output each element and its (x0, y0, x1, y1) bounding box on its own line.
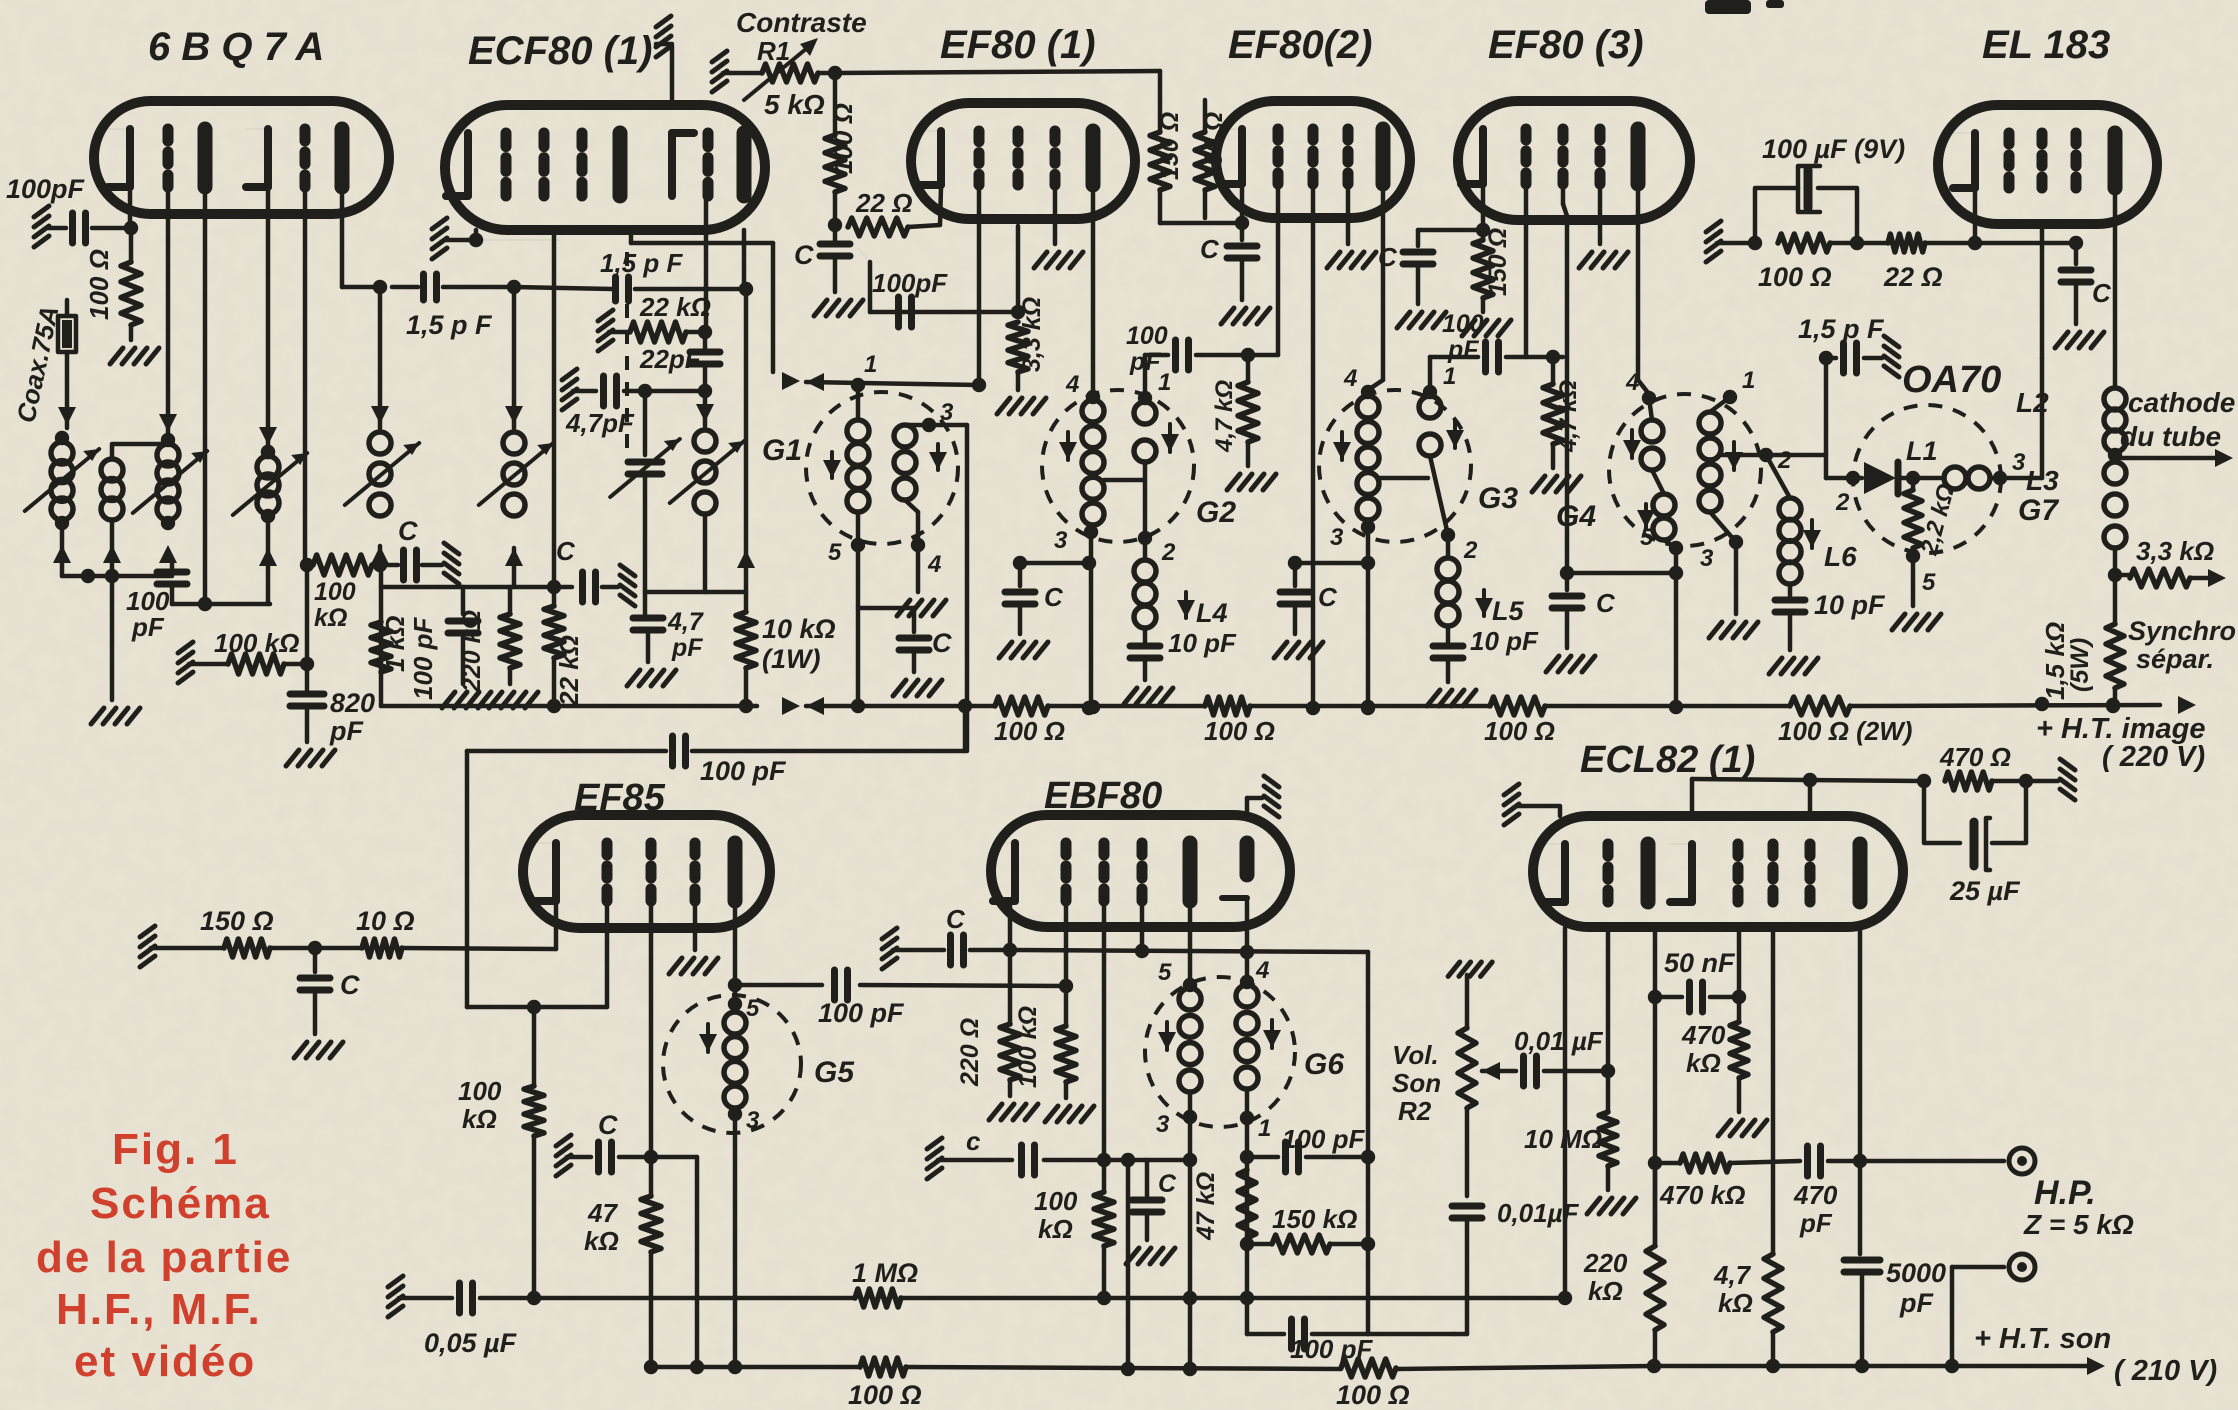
capacitor 100pF det1 (1247, 1142, 1375, 1172)
capacitor C g1 (858, 608, 942, 696)
transformer G6 can (1145, 977, 1295, 1127)
svg-text:1 kΩ: 1 kΩ (380, 616, 410, 672)
svg-text:C: C (1378, 242, 1398, 272)
capacitor C v4k (1221, 223, 1270, 324)
svg-text:EF80 (1): EF80 (1) (940, 23, 1096, 67)
label C g2 (1044, 582, 1064, 612)
svg-text:100 Ω (2W): 100 Ω (2W) (1778, 716, 1912, 746)
label G1 (762, 434, 802, 467)
tube 6BQ7A V1 envelope (94, 101, 389, 214)
label 1,5 pF osc (600, 248, 683, 278)
tube EF80 (2) V4 envelope (1216, 101, 1410, 218)
resistor 1 kOhm (371, 622, 391, 672)
resistor 100 ohm bus2 (1205, 697, 1250, 715)
wire EF85 cathode line (140, 901, 556, 967)
label L5 (1475, 590, 1524, 626)
resistor 100 ohm bus1 (995, 697, 1048, 715)
coil T ant primary (25, 431, 99, 530)
label 25uF (1949, 876, 2021, 906)
dashed tuning gang link (625, 252, 629, 462)
svg-text:Z = 5 kΩ: Z = 5 kΩ (2023, 1209, 2134, 1240)
capacitor 100pF v3-v4 (1145, 340, 1278, 398)
label cathode du tube (2120, 387, 2235, 452)
label R1 (757, 36, 790, 66)
transformer G2 can (1042, 390, 1194, 542)
wire V1 anode1 down (198, 187, 212, 611)
wire V2 pentode g down (704, 196, 709, 332)
svg-text:100pF: 100pF (872, 268, 948, 298)
resistor 3,3kOhm (997, 226, 1046, 414)
wire coil6 feed (479, 287, 553, 587)
capacitor C v5k (1397, 252, 1446, 328)
transformer G1 can (806, 392, 958, 544)
capacitor 4,7pF pad (627, 592, 676, 686)
resistor 100 ohm bus3 (1490, 697, 1545, 715)
label EF85 (574, 777, 666, 819)
label 4,7kOhm rot2 (1555, 380, 1582, 453)
capacitor C g4 (1546, 573, 1595, 672)
resistor 22 kOhm (544, 587, 564, 713)
label 4,7 pF pad (667, 608, 704, 662)
wire V4 anode down (1361, 184, 1383, 399)
svg-text:kΩ: kΩ (462, 1104, 497, 1134)
svg-text:3: 3 (2012, 449, 2026, 476)
G4 secondary coil (1699, 390, 1743, 549)
svg-text:R2: R2 (1398, 1096, 1432, 1126)
label Vol. Son R2 (1392, 1040, 1441, 1126)
label 10 pF l5 (1470, 626, 1539, 656)
wire screen drop (651, 1157, 697, 1367)
svg-text:4: 4 (1625, 369, 1639, 396)
label 100uF (9V) (1762, 134, 1905, 164)
label 0,05uF (424, 1328, 518, 1358)
diode OA70 symbol (1864, 462, 1940, 494)
label 470 kOhm fb (1659, 1180, 1745, 1210)
svg-text:3: 3 (1054, 527, 1068, 554)
G3 pin labels (1330, 363, 1478, 564)
label 22 kOhm rot (554, 635, 584, 707)
coil T ant secondary (101, 444, 168, 576)
svg-text:3: 3 (746, 1107, 760, 1134)
svg-text:EBF80: EBF80 (1044, 775, 1162, 817)
ground EF85 g3 (669, 901, 718, 974)
label 100 kOhm ef85g (458, 1076, 502, 1134)
svg-text:5000: 5000 (1886, 1258, 1946, 1288)
label C agc (398, 516, 418, 546)
svg-text:4: 4 (927, 551, 941, 578)
label 100pF v3-v4 (1126, 322, 1168, 376)
ground at ECF80 top (656, 16, 672, 105)
svg-text:C: C (1200, 234, 1220, 264)
capacitor 0,01uF af (1524, 1056, 1616, 1086)
svg-text:C: C (932, 628, 952, 658)
label Coax.75A rot (11, 303, 65, 425)
svg-text:de la partie: de la partie (36, 1233, 292, 1282)
label G3 (1478, 482, 1518, 515)
svg-text:EF85: EF85 (574, 777, 666, 819)
wire HP2 (1952, 1267, 2004, 1366)
svg-text:EF80 (3): EF80 (3) (1488, 23, 1644, 67)
capacitor 10pF l4 (1124, 646, 1173, 704)
svg-text:L5: L5 (1492, 596, 1524, 626)
svg-text:4,7: 4,7 (667, 608, 704, 636)
svg-text:4: 4 (1255, 957, 1269, 984)
label 50 nF (1664, 948, 1736, 978)
G3 secondary arrow (1446, 420, 1464, 448)
wire EBF80 cathode line (882, 901, 1368, 969)
label 150 ohm rot v4b (1200, 112, 1228, 180)
label 100 kOhm rot ebf (1014, 1006, 1042, 1088)
resistor 150 ohm v5 (1462, 230, 1511, 336)
capacitor 50nF (1655, 982, 1746, 1012)
label L4 (1177, 592, 1228, 628)
capacitor 1,5pF video (1819, 336, 1899, 377)
wire ECL82 g2 down (1771, 928, 1776, 1254)
svg-text:2: 2 (1835, 489, 1850, 516)
label H.P. (2034, 1174, 2096, 1212)
label c ebf80g2 (966, 1126, 981, 1156)
wire V3 g1 down (977, 185, 982, 385)
wire V4 g1 up (1276, 184, 1281, 355)
wire V4 g2 down (1306, 184, 1320, 715)
label 4,7kOhm rot (1211, 380, 1238, 453)
svg-text:6 B Q 7 A: 6 B Q 7 A (148, 25, 324, 69)
line osc bottom (645, 550, 755, 592)
label 100kOhm agc (314, 578, 356, 632)
resistor 100 ohm son1 (860, 1358, 906, 1376)
wire G5 down (728, 1114, 742, 1374)
ground G7 pin5 (1892, 556, 1941, 630)
label ECF80 (1) (468, 29, 653, 73)
svg-text:C: C (1044, 582, 1064, 612)
G1 secondary arrow (929, 444, 947, 470)
svg-text:cathode: cathode (2128, 387, 2235, 418)
label 6BQ7A (148, 25, 324, 69)
wire V5 anode down (1638, 184, 1656, 405)
svg-text:100 Ω: 100 Ω (848, 1380, 922, 1410)
G6 primary coil (1179, 988, 1201, 1124)
tube EBF80 V8 envelope (991, 815, 1290, 927)
G4 primary coil (1641, 398, 1683, 555)
svg-text:(1W): (1W) (762, 644, 820, 674)
G5 arrow (699, 1024, 717, 1052)
label 100 ohm bus2 (1204, 716, 1275, 746)
svg-text:4,7 kΩ: 4,7 kΩ (1211, 380, 1238, 453)
svg-text:47 kΩ: 47 kΩ (1192, 1172, 1220, 1241)
svg-text:3,3 kΩ: 3,3 kΩ (1018, 297, 1046, 372)
svg-text:100 kΩ: 100 kΩ (214, 628, 299, 658)
svg-text:Vol.: Vol. (1392, 1040, 1439, 1070)
wire EBF80 g1 up (1064, 901, 1069, 986)
wire cathode du tube (2115, 449, 2233, 467)
label L2 (2016, 387, 2049, 418)
label C g3 (1318, 582, 1338, 612)
capacitor 22pF (690, 332, 720, 398)
label 100 ohm bus1 (994, 716, 1065, 746)
svg-text:100 Ω: 100 Ω (1758, 262, 1832, 292)
label G7 (2018, 494, 2059, 527)
main HT image bus (381, 696, 2196, 715)
G2 link (1104, 478, 1143, 483)
svg-text:2: 2 (1777, 447, 1792, 474)
svg-text:22pF: 22pF (639, 344, 702, 374)
label 100pF agc2 (872, 268, 948, 298)
svg-text:470: 470 (1793, 1180, 1838, 1210)
G5 coil (724, 985, 746, 1121)
label EF80 (3) (1488, 23, 1644, 67)
coil L3 (2104, 462, 2126, 582)
svg-text:ECF80 (1): ECF80 (1) (468, 29, 653, 73)
resistor 4,7kOhm g5 (1532, 357, 1581, 492)
resistor 100k ebf80 g2 (1094, 1160, 1114, 1298)
svg-text:3: 3 (1156, 1111, 1170, 1138)
G3 secondary coil (1419, 385, 1455, 542)
svg-text:kΩ: kΩ (1038, 1214, 1073, 1244)
G2 secondary coil (1134, 391, 1156, 545)
svg-text:L6: L6 (1824, 541, 1857, 572)
label 5 kOhm (764, 89, 825, 120)
svg-text:2: 2 (1161, 539, 1176, 566)
label C v4k (1200, 234, 1220, 264)
svg-text:470 Ω: 470 Ω (1939, 742, 2011, 772)
label 10 pF l6 (1814, 590, 1886, 620)
capacitor 10pF l5 (1427, 646, 1476, 706)
svg-text:100 Ω: 100 Ω (1336, 1380, 1410, 1410)
HP terminal 2 (2009, 1254, 2035, 1280)
svg-text:H.F., M.F.: H.F., M.F. (56, 1285, 262, 1334)
capacitor 100pF vid coupling (467, 699, 972, 1007)
wire V1 cathode (124, 187, 138, 235)
svg-text:pF: pF (671, 634, 703, 662)
wire coil7 feed (670, 391, 744, 592)
label 5000 pF (1886, 1258, 1946, 1318)
svg-text:Contraste: Contraste (736, 7, 867, 38)
ground mid ant (91, 569, 140, 724)
wire EBF80 g3 (1140, 901, 1145, 951)
svg-text:22 Ω: 22 Ω (855, 188, 912, 218)
svg-text:C: C (556, 536, 576, 566)
svg-text:Synchro: Synchro (2128, 616, 2236, 646)
G2 primary coil (1082, 400, 1104, 539)
G1 primary coil (847, 385, 869, 552)
caption de la partie (36, 1233, 292, 1282)
svg-text:220 Ω: 220 Ω (956, 1018, 984, 1087)
resistor 100 kOhm ef85g (524, 1007, 544, 1305)
svg-text:c: c (966, 1126, 981, 1156)
svg-text:C: C (340, 970, 360, 1000)
wire EL183 cathode line (1706, 188, 2083, 262)
wire V5 cathode net (1418, 184, 1490, 246)
label 100 ohm rot (84, 249, 114, 320)
capacitor 1,5pF mixer-in (373, 274, 521, 300)
label 470 pF (1793, 1180, 1838, 1238)
wire EF85 grid line (467, 901, 607, 1014)
G4 secondary arrow (1725, 442, 1743, 470)
svg-text:4: 4 (1065, 371, 1079, 398)
G6 pin labels (1156, 957, 1271, 1142)
svg-text:pF: pF (1447, 336, 1479, 364)
label 150 kOhm (1272, 1204, 1357, 1234)
G1 secondary coil (894, 418, 967, 552)
svg-text:kΩ: kΩ (314, 604, 347, 632)
G4 pin labels (1625, 367, 1792, 572)
label 150 ohm ef85 (200, 906, 274, 936)
wire V2 g3 down (547, 230, 561, 594)
wire G2 pin3 chain (1013, 532, 1096, 715)
label 220 kOhm ecl (1583, 1248, 1628, 1306)
label G6 (1304, 1048, 1344, 1081)
svg-text:10 MΩ: 10 MΩ (1524, 1124, 1602, 1154)
G6 secondary coil (1236, 985, 1258, 1125)
svg-text:kΩ: kΩ (1686, 1048, 1721, 1078)
coil L4 (1134, 538, 1156, 642)
svg-text:22 Ω: 22 Ω (1883, 262, 1943, 292)
svg-text:et vidéo: et vidéo (74, 1337, 256, 1386)
capacitor 100 pF ant (157, 560, 270, 604)
capacitor C agc (380, 543, 459, 584)
coil L1 (1944, 467, 2007, 489)
G4 pin2 node (1722, 448, 1826, 462)
tube ECF80 U2 envelope (445, 105, 765, 230)
label 100 ohm son2 (1336, 1380, 1410, 1410)
resistor 22 kOhm osc (598, 310, 712, 351)
capacitor 100pF screen (442, 587, 491, 708)
wire V2 triode anode (631, 230, 800, 390)
label 22 ohm el183 (1883, 262, 1943, 292)
svg-text:kΩ: kΩ (1718, 1288, 1753, 1318)
label 820 pF (329, 688, 375, 746)
coil T1 tuned (133, 444, 207, 530)
resistor 4,7kOhm g4 (1227, 355, 1276, 490)
svg-text:1,5 p F: 1,5 p F (1798, 314, 1885, 344)
svg-text:C: C (2092, 278, 2112, 308)
svg-text:1,5 p F: 1,5 p F (600, 248, 683, 278)
svg-text:100 Ω: 100 Ω (828, 103, 858, 174)
svg-text:G6: G6 (1304, 1048, 1344, 1081)
wire G6 pin3 chain (1183, 1117, 1197, 1369)
coil L6 (1766, 455, 1801, 596)
capacitor 820pF (286, 565, 335, 766)
caption HF MF (56, 1285, 262, 1334)
capacitor 4,7pF (562, 369, 705, 410)
label 100 ohm el183 (1758, 262, 1832, 292)
capacitor 470 pF (1808, 1146, 1868, 1176)
wire V2 pin grid line (432, 218, 560, 259)
label 220 kOhm rot (458, 610, 486, 693)
svg-text:4: 4 (1343, 365, 1357, 392)
svg-text:L3: L3 (2026, 465, 2059, 496)
wire G4 pin2 to diode (1826, 358, 1862, 485)
svg-text:100 pF: 100 pF (1282, 1124, 1365, 1154)
svg-text:G7: G7 (2018, 494, 2059, 527)
R2 wiper (1482, 1062, 1516, 1080)
label 100 pF rot (408, 617, 438, 700)
ground under 100 ohm (110, 348, 159, 364)
label 470 kOhm g (1681, 1020, 1726, 1078)
wire V2 pentode anode down (744, 230, 746, 592)
svg-text:100 µF (9V): 100 µF (9V) (1762, 134, 1905, 164)
ground G4 pin3 (1709, 542, 1758, 638)
svg-text:150 Ω: 150 Ω (200, 906, 274, 936)
label C g4 (1596, 588, 1616, 618)
label ECL82 (1) (1580, 739, 1755, 781)
svg-text:100: 100 (1034, 1186, 1078, 1216)
label 150 ohm rot v4 (1156, 112, 1184, 180)
wire triode anode down (1648, 928, 1662, 1246)
svg-text:3: 3 (940, 399, 954, 426)
wire EF85 anode down (728, 901, 742, 1011)
capacitor 1,5pF osc (514, 277, 753, 301)
label 0,01uF af (1514, 1026, 1604, 1056)
label EBF80 (1044, 775, 1162, 817)
label 2,2kOhm rot (1915, 481, 1960, 559)
resistor 100 ohm V3 anode load (825, 73, 845, 232)
svg-text:10 pF: 10 pF (1814, 590, 1886, 620)
svg-text:100: 100 (458, 1076, 502, 1106)
ground V3 g3 (1034, 185, 1083, 268)
label 22 kOhm osc (639, 292, 711, 322)
G6 secondary arrow (1263, 1020, 1281, 1048)
label 100pF (6, 174, 86, 204)
G1 pin labels (828, 351, 954, 578)
svg-text:EF80(2): EF80(2) (1228, 23, 1373, 67)
label 100 ohm son1 (848, 1380, 922, 1410)
label C el183 (2092, 278, 2112, 308)
capacitor 100pF at V1 cathode (34, 206, 130, 247)
HT son bus (651, 1357, 2105, 1376)
resistor 1,5kOhm 5W (2106, 575, 2124, 713)
svg-text:H.P.: H.P. (2034, 1174, 2096, 1212)
capacitor 100pF agc2 (858, 248, 1018, 327)
resistor 220 kOhm ecl (1646, 1163, 1664, 1366)
label 0,01uF r2 (1497, 1198, 1580, 1228)
resistor 10 ohm (362, 939, 402, 957)
svg-text:100 pF: 100 pF (700, 756, 787, 786)
resistor 10 MOhm (1587, 1071, 1636, 1214)
ground ECL82 top (1504, 784, 1560, 825)
wire V3 anode down (1086, 185, 1100, 404)
svg-text:1,5 p F: 1,5 p F (406, 310, 493, 340)
tube EL183 V6 envelope (1938, 105, 2157, 224)
G3 primary coil (1357, 396, 1379, 534)
label 47 kOhm (584, 1198, 619, 1256)
resistor 47 kOhm (641, 1196, 661, 1374)
wire coil5 feed (345, 287, 419, 565)
label C ef85k (340, 970, 360, 1000)
resistor 100 ohm el183 (1778, 234, 1830, 252)
svg-text:820: 820 (330, 688, 375, 718)
node V1 g2 junction (300, 558, 314, 572)
G5 pin labels (746, 995, 760, 1134)
resistor 2,2kOhm (1904, 471, 1922, 563)
wire EBF80 anode down (1183, 901, 1197, 992)
EBF80 diode hook (1222, 895, 1247, 901)
svg-text:4,7: 4,7 (1713, 1260, 1752, 1290)
resistor 470 ohm (1945, 759, 2075, 800)
svg-text:5: 5 (828, 539, 842, 566)
wire R1 to EF80(2) (835, 71, 1160, 132)
resistor 100k ant bias (178, 642, 314, 683)
label 220 ohm rot (956, 1018, 984, 1087)
svg-text:220 kΩ: 220 kΩ (458, 610, 486, 693)
wire det box right (1368, 952, 1455, 1334)
label C v3k (794, 240, 814, 270)
svg-text:pF: pF (1129, 348, 1161, 376)
wire G1 pin3 down (965, 425, 970, 751)
label 1,5kOhm rot (2040, 622, 2094, 700)
svg-text:C: C (946, 904, 966, 934)
tube EF80 (3) V5 envelope (1458, 101, 1690, 220)
